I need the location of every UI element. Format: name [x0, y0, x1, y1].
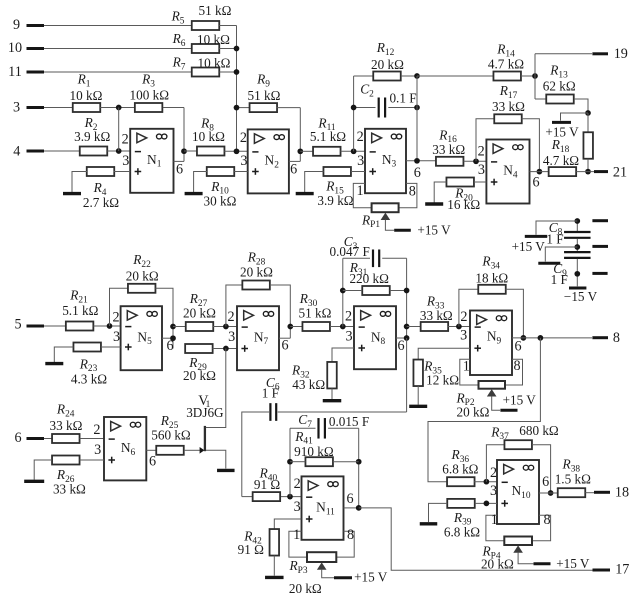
resistor R10	[207, 167, 235, 176]
wire	[351, 171, 365, 173]
svg-text:19: 19	[614, 46, 628, 62]
wire	[399, 183, 417, 207]
terminal 5	[27, 325, 45, 328]
svg-text:10 kΩ: 10 kΩ	[192, 129, 225, 144]
svg-text:8: 8	[544, 512, 551, 528]
wire	[545, 247, 577, 262]
svg-text:3.9 kΩ: 3.9 kΩ	[317, 193, 353, 208]
resistor R36	[447, 477, 475, 486]
terminal stub C8 top	[592, 219, 608, 222]
wire	[353, 183, 371, 207]
terminal -15V	[569, 287, 586, 290]
op-amp N7	[237, 306, 279, 370]
node C8 top	[574, 218, 580, 224]
svg-text:3: 3	[13, 100, 20, 116]
wire	[331, 388, 333, 399]
wire	[536, 221, 577, 235]
svg-text:6: 6	[290, 162, 297, 178]
svg-text:1 F: 1 F	[546, 232, 563, 247]
wire	[532, 445, 551, 493]
terminal 4	[27, 150, 45, 153]
wire output 17	[359, 508, 593, 570]
node N11 pin2	[287, 494, 293, 500]
wire	[434, 182, 446, 203]
svg-text:20 kΩ: 20 kΩ	[481, 557, 514, 572]
op-amp N11	[302, 476, 344, 539]
wire	[587, 113, 589, 133]
svg-text:3DJ6G: 3DJ6G	[186, 405, 224, 420]
resistor R33	[421, 322, 449, 331]
wire	[44, 438, 52, 440]
node R27 left	[170, 324, 176, 330]
svg-text:1: 1	[491, 512, 498, 528]
wire	[486, 445, 504, 482]
svg-text:5: 5	[14, 317, 21, 333]
wire	[406, 338, 408, 412]
svg-text:5.1 kΩ: 5.1 kΩ	[62, 303, 98, 318]
wire	[417, 75, 493, 77]
terminal 17	[593, 569, 611, 572]
resistor R42 vertical	[270, 529, 280, 556]
svg-text:+15 V: +15 V	[417, 223, 451, 238]
resistor R29	[185, 344, 213, 353]
wire	[332, 348, 354, 362]
wire	[535, 98, 546, 100]
wire	[300, 150, 313, 152]
svg-text:910 kΩ: 910 kΩ	[294, 444, 334, 459]
op-amp N10	[497, 460, 539, 524]
wire	[576, 221, 578, 231]
svg-text:20 kΩ: 20 kΩ	[126, 269, 159, 284]
wire	[183, 108, 185, 162]
node N5 pin2	[107, 323, 113, 329]
svg-text:1: 1	[356, 183, 363, 199]
wire	[44, 25, 192, 27]
svg-text:1.5 kΩ: 1.5 kΩ	[555, 472, 591, 487]
svg-text:220 kΩ: 220 kΩ	[349, 271, 389, 286]
wire	[428, 338, 540, 482]
wire	[155, 288, 173, 348]
svg-text:6: 6	[281, 338, 288, 354]
wire	[173, 326, 186, 328]
ground R32	[323, 399, 342, 402]
resistor R38	[558, 488, 586, 497]
node N4 pin2	[473, 158, 479, 164]
wire	[353, 76, 355, 151]
terminal 9	[27, 24, 45, 27]
wire RP1 wiper	[385, 220, 394, 231]
node N1 pin2	[116, 148, 122, 154]
svg-text:2.7 kΩ: 2.7 kΩ	[83, 195, 119, 210]
svg-text:30 kΩ: 30 kΩ	[204, 193, 237, 208]
resistor R14	[493, 72, 521, 81]
node N10 pin3	[484, 501, 490, 507]
svg-text:20 kΩ: 20 kΩ	[183, 306, 216, 321]
wire	[576, 171, 594, 173]
ground R35	[409, 405, 427, 408]
resistor R35 vertical	[413, 360, 423, 387]
resistor R20	[446, 178, 474, 187]
terminal 3	[27, 106, 45, 109]
wire	[448, 326, 470, 328]
capacitor C9	[564, 252, 591, 258]
svg-text:+15 V: +15 V	[354, 569, 388, 584]
terminal +15V RP2	[500, 409, 517, 412]
wire V1 gate	[184, 449, 200, 451]
resistor R22	[128, 284, 156, 293]
wire	[219, 48, 236, 50]
resistor R3	[135, 103, 163, 112]
wire	[475, 502, 497, 504]
svg-text:2: 2	[122, 132, 129, 148]
svg-text:560 kΩ: 560 kΩ	[151, 428, 191, 443]
wire	[224, 150, 247, 152]
svg-text:6.8 kΩ: 6.8 kΩ	[444, 525, 480, 540]
terminal +15V C8	[525, 235, 547, 238]
wire	[277, 107, 301, 109]
svg-text:51 kΩ: 51 kΩ	[299, 305, 332, 320]
capacitor C7	[319, 418, 325, 439]
resistor R30	[302, 322, 330, 331]
svg-text:3: 3	[122, 153, 129, 169]
resistor R41	[305, 457, 333, 466]
svg-text:3: 3	[490, 483, 497, 499]
wire	[474, 481, 497, 483]
node C2 left	[351, 105, 357, 111]
wire	[574, 99, 588, 113]
wire	[219, 25, 236, 27]
wire	[576, 259, 578, 287]
resistor R24	[52, 434, 80, 443]
op-amp N3	[365, 129, 406, 193]
svg-text:6: 6	[176, 161, 183, 177]
svg-text:20 kΩ: 20 kΩ	[240, 265, 273, 280]
wire	[237, 107, 251, 109]
wire	[521, 75, 535, 77]
ground V1 source	[217, 469, 235, 472]
wire N5 output	[162, 337, 173, 339]
resistor R18 vertical	[583, 132, 593, 159]
node N8 output	[404, 335, 410, 341]
svg-text:3.9 kΩ: 3.9 kΩ	[74, 129, 110, 144]
wire	[388, 107, 417, 109]
svg-text:43 kΩ: 43 kΩ	[292, 377, 325, 392]
svg-text:6: 6	[14, 430, 21, 446]
node R13/R18	[585, 110, 591, 116]
wire	[234, 171, 248, 173]
svg-text:6: 6	[346, 491, 353, 507]
node R31 left	[340, 288, 346, 294]
svg-text:91 Ω: 91 Ω	[238, 542, 264, 557]
resistor output 21	[549, 167, 577, 176]
svg-text:8: 8	[347, 527, 354, 543]
resistor R11	[313, 147, 341, 156]
svg-text:9: 9	[13, 17, 20, 33]
svg-text:10 kΩ: 10 kΩ	[198, 55, 231, 70]
ground R4	[63, 192, 81, 195]
terminal stub mid	[592, 245, 608, 248]
node N10 pin2	[484, 479, 490, 485]
wire	[342, 258, 344, 326]
node N3 output	[414, 158, 420, 164]
terminal stub C9 bottom	[592, 272, 607, 275]
svg-text:4.3 kΩ: 4.3 kΩ	[71, 372, 107, 387]
svg-text:5.1 kΩ: 5.1 kΩ	[310, 129, 346, 144]
svg-text:4.7 kΩ: 4.7 kΩ	[543, 153, 579, 168]
svg-text:33 kΩ: 33 kΩ	[432, 142, 465, 157]
wire	[336, 531, 354, 557]
svg-text:3: 3	[228, 329, 235, 345]
terminal 8	[592, 336, 608, 339]
svg-text:680 kΩ: 680 kΩ	[519, 423, 559, 438]
node C8/C9	[574, 244, 580, 250]
node R9 left	[234, 105, 240, 111]
svg-text:51 kΩ: 51 kΩ	[199, 3, 232, 18]
svg-text:33 kΩ: 33 kΩ	[53, 482, 86, 497]
svg-text:51 kΩ: 51 kΩ	[248, 88, 281, 103]
svg-text:20 kΩ: 20 kΩ	[457, 404, 490, 419]
wire	[44, 48, 192, 50]
resistor R7	[192, 68, 220, 77]
ground R39	[420, 522, 438, 525]
wire	[242, 412, 269, 497]
wire	[585, 492, 594, 494]
wire N11 output	[344, 507, 359, 509]
wire	[476, 119, 495, 162]
resistor R25	[156, 446, 184, 455]
wire	[330, 326, 354, 328]
resistor R39	[447, 499, 475, 508]
potentiometer RP3	[307, 552, 336, 562]
transistor V1 3DJ6G	[200, 447, 205, 454]
terminal +15V R18	[552, 121, 571, 124]
wire	[93, 325, 120, 327]
wire N6 output	[146, 449, 156, 451]
wire	[459, 289, 479, 326]
terminal +15V RP1	[394, 229, 411, 232]
wire RP4 wiper	[518, 552, 533, 563]
wire	[358, 428, 360, 508]
wire	[416, 76, 418, 161]
svg-text:3: 3	[113, 329, 120, 345]
terminal 21	[594, 170, 608, 173]
resistor R26	[52, 456, 80, 465]
capacitor C3	[373, 250, 379, 268]
node N8 pin2	[340, 324, 346, 330]
wire N1 output	[174, 160, 185, 162]
node N9 output	[538, 335, 544, 341]
wire	[163, 107, 184, 109]
wire	[587, 159, 589, 172]
wire	[429, 503, 448, 522]
wire	[289, 531, 307, 557]
wire	[44, 107, 73, 109]
terminal +15V RP3	[334, 576, 352, 579]
node output 21	[585, 169, 591, 175]
wire	[328, 427, 359, 429]
wire	[333, 461, 359, 463]
resistor R9	[250, 103, 277, 112]
svg-text:2: 2	[240, 130, 247, 146]
wire	[305, 172, 324, 193]
wire	[114, 171, 131, 173]
svg-text:6.8 kΩ: 6.8 kΩ	[442, 461, 478, 476]
svg-text:+15 V: +15 V	[556, 556, 590, 571]
resistor R28	[242, 281, 270, 290]
resistor R37	[504, 440, 532, 449]
svg-text:4.7 kΩ: 4.7 kΩ	[488, 57, 524, 72]
resistor R13	[546, 95, 574, 104]
svg-text:4: 4	[13, 143, 20, 159]
wire	[281, 496, 302, 498]
resistor R34	[478, 285, 506, 294]
node N4 output	[537, 169, 543, 175]
node N9 pin2	[456, 324, 462, 330]
svg-text:11: 11	[8, 64, 22, 80]
wire	[80, 438, 104, 440]
node C9 bottom	[574, 271, 580, 277]
wire	[486, 515, 504, 540]
svg-text:8: 8	[613, 330, 620, 346]
node N3 pin2	[351, 148, 357, 154]
wire	[44, 325, 66, 327]
svg-text:6: 6	[532, 174, 539, 190]
node N5 output	[170, 335, 176, 341]
wire	[213, 326, 237, 328]
svg-text:6: 6	[514, 338, 521, 354]
node N7 pin2	[223, 324, 229, 330]
op-amp N2	[248, 129, 289, 193]
ground R42	[265, 576, 284, 579]
svg-text:6: 6	[542, 474, 549, 490]
wire RP2 wiper	[492, 396, 500, 410]
resistor R31	[362, 286, 390, 295]
capacitor C2	[379, 98, 385, 118]
wire	[290, 427, 316, 429]
wire	[534, 54, 536, 99]
wire	[290, 461, 306, 463]
resistor R4	[87, 167, 115, 176]
node N7 output	[287, 324, 293, 330]
wire N2 output	[289, 160, 300, 162]
wire	[194, 172, 207, 193]
wire	[460, 359, 479, 385]
wire	[44, 150, 80, 152]
svg-text:100 kΩ: 100 kΩ	[130, 88, 170, 103]
svg-text:3: 3	[478, 162, 485, 178]
wire	[343, 257, 370, 259]
terminal 18	[594, 491, 610, 494]
wire	[505, 359, 523, 385]
op-amp N6	[104, 417, 146, 480]
wire	[44, 71, 192, 73]
svg-text:+15 V: +15 V	[503, 393, 537, 408]
op-amp N9	[470, 311, 512, 376]
wire	[530, 171, 549, 173]
svg-text:3: 3	[240, 153, 247, 169]
potentiometer RP1	[372, 203, 399, 212]
terminal +15V RP4	[534, 562, 551, 565]
node N7 pin3	[223, 346, 229, 352]
wire	[417, 386, 419, 405]
svg-text:16 kΩ: 16 kΩ	[447, 197, 480, 212]
svg-text:6: 6	[414, 165, 421, 181]
op-amp N5	[121, 306, 162, 370]
svg-text:33 kΩ: 33 kΩ	[492, 99, 525, 114]
node N10 output	[548, 490, 554, 496]
wire V1 source	[206, 450, 226, 468]
wire N8 output	[396, 337, 407, 339]
svg-text:1 F: 1 F	[551, 272, 568, 287]
wire	[382, 257, 406, 259]
svg-text:10 kΩ: 10 kΩ	[70, 88, 103, 103]
svg-text:2: 2	[460, 309, 467, 325]
svg-text:18 kΩ: 18 kΩ	[475, 270, 508, 285]
node R31 right	[404, 288, 410, 294]
junction R6/vertical	[234, 46, 240, 52]
resistor R27	[186, 322, 214, 331]
svg-text:2: 2	[294, 476, 301, 492]
resistor R32 vertical	[327, 362, 337, 389]
wire	[343, 290, 363, 292]
wire	[535, 53, 592, 55]
terminal 6	[27, 437, 45, 440]
svg-text:3: 3	[94, 442, 101, 458]
wire	[390, 290, 407, 292]
wire	[341, 150, 366, 152]
svg-text:20 kΩ: 20 kΩ	[289, 581, 322, 596]
node R34 right	[521, 335, 527, 341]
svg-text:8: 8	[514, 358, 521, 374]
wire	[270, 285, 290, 338]
resistor R21	[66, 322, 94, 331]
wire	[118, 108, 120, 152]
wire	[474, 181, 486, 183]
svg-text:1 F: 1 F	[262, 386, 279, 401]
resistor R12	[373, 72, 401, 81]
ground R20	[425, 202, 443, 205]
terminal supply C9	[538, 262, 560, 265]
wire	[354, 107, 376, 109]
svg-text:+15 V: +15 V	[512, 239, 546, 254]
node N2 pin2	[234, 148, 240, 154]
svg-text:8: 8	[409, 183, 416, 199]
svg-text:1: 1	[293, 527, 300, 543]
node N11 output	[356, 505, 362, 511]
node R1/R3	[116, 105, 122, 111]
resistor R23	[73, 343, 101, 352]
terminal 11	[27, 71, 45, 74]
node R14 right	[532, 73, 538, 79]
svg-text:18: 18	[615, 484, 629, 500]
svg-text:0.015 F: 0.015 F	[329, 414, 369, 429]
wire	[506, 289, 524, 338]
resistor R2	[80, 147, 108, 156]
node N2 output	[297, 148, 303, 154]
node C2 right	[414, 105, 420, 111]
wire	[278, 411, 407, 413]
wire N7 output	[279, 337, 290, 339]
wire	[522, 119, 540, 172]
svg-text:2: 2	[478, 144, 485, 160]
svg-text:1: 1	[463, 359, 470, 375]
svg-text:2: 2	[345, 309, 352, 325]
ground R10	[185, 192, 203, 195]
capacitor C6	[270, 403, 276, 421]
wire	[72, 172, 87, 193]
wire	[532, 515, 551, 540]
op-amp N4	[486, 140, 529, 204]
